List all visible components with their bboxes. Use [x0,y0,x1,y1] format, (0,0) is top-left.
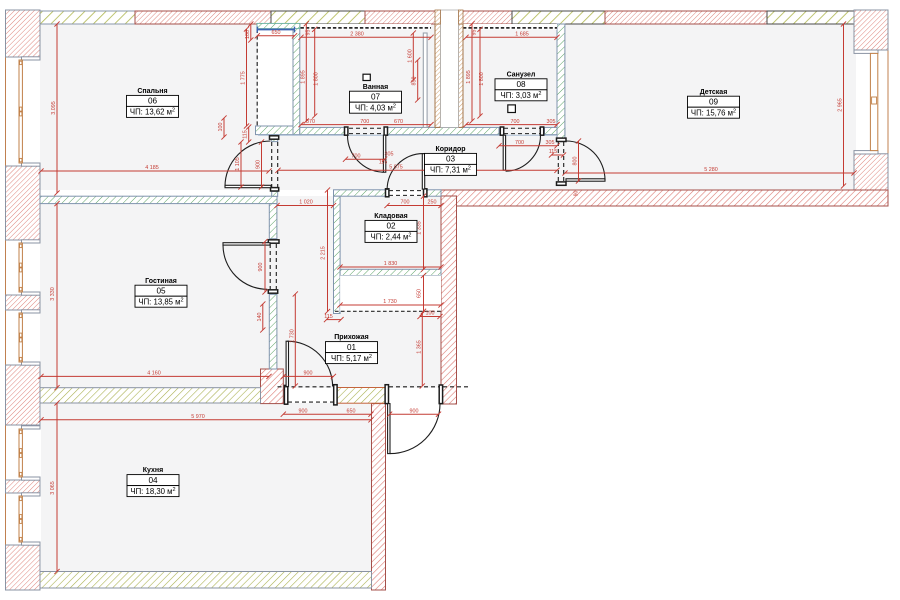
door bathroom: opening dash [349,127,383,129]
dimension nursery width 5280 [562,167,856,175]
svg-text:ЧП: 2,44 м2: ЧП: 2,44 м2 [371,233,412,242]
dimension hallway arm height 2215 [321,187,331,314]
room label Гостиная 05 [135,278,187,307]
svg-text:1 020: 1 020 [299,200,313,206]
room label Санузел 08 [495,71,547,100]
svg-text:1 775: 1 775 [241,71,247,85]
dimension shaft 850 [412,57,421,102]
svg-text:1 895: 1 895 [466,70,472,84]
svg-text:07: 07 [371,92,381,101]
svg-text:650: 650 [272,30,281,36]
window on left exterior wall kitchen window 2 [19,493,40,545]
closet niche dashed south boundary [335,310,441,312]
window on left exterior wall living room window 1 [19,240,40,295]
svg-text:1 105: 1 105 [235,157,241,171]
door corridor to hallway: jambs [386,189,427,197]
svg-text:1 800: 1 800 [479,72,485,86]
balcony lobby south partition [256,126,300,135]
svg-text:Ванная: Ванная [363,84,388,91]
exterior top wall band, red hatched segment over nursery [605,11,767,24]
closet niche white floor [340,276,441,311]
dimension bathroom height 1895 [300,21,309,124]
svg-text:900: 900 [410,408,419,414]
dimension entry door 900 [387,408,441,416]
window on left exterior wall kitchen window 1 [19,426,40,480]
right exterior wall outer face line [887,10,889,206]
dimension bathroom width 2380 [298,32,433,40]
svg-text:02: 02 [386,222,396,231]
exterior top wall band, red hatched segment [135,11,271,24]
svg-text:Санузел: Санузел [507,71,536,78]
ventilation shaft duct opening in top wall [435,10,463,127]
svg-text:650: 650 [417,289,423,298]
svg-text:700: 700 [352,153,361,159]
svg-text:140: 140 [257,313,263,322]
door nursery: leaf and swing arc [566,141,605,181]
svg-text:1 365: 1 365 [416,340,422,354]
dimension hallway top width 1020 [274,200,336,208]
dimension kitchen north 900 650 [281,408,374,416]
svg-text:ЧП: 18,30 м2: ЧП: 18,30 м2 [130,487,175,496]
entry door: jambs [385,385,443,404]
dimension storage width 1830 [337,261,443,269]
partition between WC and nursery [557,24,565,141]
svg-text:3.095: 3.095 [51,101,57,115]
svg-text:ЧП: 13,62 м2: ЧП: 13,62 м2 [130,108,175,117]
door WC: jambs [500,127,543,135]
left exterior wall small pier living room [6,295,41,310]
svg-text:1 685: 1 685 [515,32,529,38]
door bathroom: jambs [345,127,388,135]
door hallway to kitchen: jambs [284,385,337,405]
corridor south partition right of storage door [424,190,441,196]
svg-text:670: 670 [394,119,403,125]
partition between bedroom and living room [40,196,277,203]
svg-text:1 800: 1 800 [314,72,320,86]
svg-text:06: 06 [148,97,158,106]
left exterior wall pier bottom corner [6,545,41,590]
door bedroom: opening dashes [272,142,278,187]
balcony lobby interior white floor [258,29,293,127]
dimension bathroom height 1800 [312,27,319,119]
svg-text:Коридор: Коридор [435,146,465,153]
door WC: opening dashes [504,128,540,133]
dimension WC south 700 305 [463,119,559,127]
svg-text:305: 305 [547,119,556,125]
kitchen south exterior wall olive hatched [40,572,372,589]
svg-text:850: 850 [412,77,418,86]
svg-text:95: 95 [306,30,312,36]
dimension niche wall 115 [324,314,344,322]
dimension balcony door 650 [255,30,297,38]
svg-text:800: 800 [573,157,579,166]
window on left exterior wall bedroom [19,57,40,166]
WC north thin wall with dashed line [463,24,557,30]
dimension bathroom south 870 700 670 [298,119,433,127]
door living room: leaf and swing arc [223,243,270,290]
exterior top wall band, red hatched segment over WC [462,11,512,24]
svg-text:ЧП: 15,76 м2: ЧП: 15,76 м2 [691,109,736,118]
svg-text:870: 870 [306,119,315,125]
svg-text:305: 305 [385,152,394,158]
dimension niche width 1730 [337,299,443,307]
door hallway to kitchen: opening dashes [278,387,334,402]
dimension corridor length 5075 [275,165,559,173]
storage west partition [334,196,341,313]
svg-text:09: 09 [709,97,719,106]
ventilation shaft west wall [435,24,441,127]
right exterior wall pier below nursery window [854,154,888,206]
svg-text:Кухня: Кухня [143,467,163,474]
room label Кладовая 02 [365,213,417,242]
load-bearing wall right of storage and hallway [441,196,457,404]
dimension kitchen width 5970 [38,414,373,422]
dimension hallway height 1365 [416,311,425,389]
svg-text:700: 700 [515,140,524,146]
window on right exterior wall of nursery [854,50,878,154]
bathroom north thin wall with dashed line [301,24,432,30]
dimension bathroom door 700 corridor side [343,153,387,161]
door WC: leaf and swing arc [503,135,540,171]
kitchen north wall olive hatched segment [40,388,261,403]
dimension 100 [218,115,227,139]
door bedroom: jambs [270,136,279,191]
left exterior wall pier top [6,10,41,57]
dimension bedroom door 1105 [235,139,244,189]
svg-text:3 330: 3 330 [50,287,56,301]
svg-text:700: 700 [401,200,410,206]
room label Спальня 06 [127,88,179,117]
dimension shaft 1600 [407,30,416,82]
door bedroom: leaf and swing arc [225,141,271,188]
balcony lobby dashed west boundary [256,29,258,128]
svg-text:ЧП: 5,17 м2: ЧП: 5,17 м2 [331,354,372,363]
dimension living room door 900 [258,239,268,295]
door nursery: opening dashes [558,142,563,181]
left exterior wall outer face line [5,10,7,590]
svg-text:650: 650 [347,408,356,414]
svg-text:Детская: Детская [700,89,728,96]
dimension hallway door 900 [281,371,336,379]
corridor north partition between bathroom and WC doors [385,127,499,134]
dimension hallway height 1730 [289,291,298,388]
dimension bedroom door 900 [256,139,265,189]
svg-text:1 730: 1 730 [383,299,397,305]
svg-text:Кладовая: Кладовая [374,213,408,220]
bedroom east wall stub above door [272,135,278,142]
dimension nursery height 2965 [838,21,847,188]
svg-text:100: 100 [426,311,435,317]
svg-text:1 730: 1 730 [289,329,295,343]
door hallway to kitchen: leaf and swing arc [286,341,333,386]
svg-text:5 280: 5 280 [704,167,718,173]
exterior top wall band, red hatched segment over bathroom [365,11,437,24]
svg-text:115: 115 [379,160,388,166]
dimension storage height 1335 [417,194,427,272]
room label Ванная 07 [350,84,402,113]
door nursery: jambs [557,138,567,185]
svg-text:Спальня: Спальня [137,88,167,95]
room label Кухня 04 [127,467,179,496]
svg-text:100: 100 [218,123,224,132]
door corridor to hallway: leaf and swing arc [387,154,425,190]
dimension niche height 650 [417,273,427,314]
top right corner pier of nursery [854,10,888,50]
corridor south partition / storage north wall [334,190,388,196]
svg-text:1 895: 1 895 [300,70,306,84]
svg-text:5 970: 5 970 [191,414,205,420]
thick load-bearing wall under corridor and nursery [441,190,888,206]
exterior top wall band, olive hatched segment over bath lobby [271,11,365,24]
svg-text:01: 01 [347,343,357,352]
svg-text:100: 100 [245,30,251,39]
dimension lobby height 1775 [241,26,250,128]
kitchen north wall olive hatched segment right of passage [337,388,386,404]
partition living room east wall upper part [269,204,277,239]
vent symbol in WC [508,105,516,113]
room label Детская 09 [688,89,740,118]
svg-text:ЧП: 7,31 м2: ЧП: 7,31 м2 [430,166,471,175]
dimension living room height 3330 [50,201,60,390]
svg-text:900: 900 [304,371,313,377]
svg-text:900: 900 [258,263,264,272]
svg-text:115: 115 [324,314,333,320]
room label Коридор 03 [425,146,477,175]
dimension bedroom door 115 [243,124,252,144]
exterior top wall band, olive hatched segment over bedroom [38,11,135,24]
door bathroom: leaf and swing arc [347,135,385,172]
dimension bedroom height 3095 [51,21,60,195]
svg-text:ЧП: 13,85 м2: ЧП: 13,85 м2 [138,298,183,307]
bedroom east wall stub below door [272,191,278,196]
door living room: opening dashes [270,244,276,289]
svg-text:700: 700 [511,119,520,125]
dimension nursery door 800 [573,138,582,183]
dimension living room width 4160 [38,371,271,379]
dimension kitchen height 3065 [50,400,60,574]
door living room: jambs [268,240,279,293]
svg-text:2 965: 2 965 [838,98,844,112]
svg-text:90: 90 [574,191,580,197]
entry door: opening dashes [389,386,470,388]
exterior top wall band, olive hatched segment over nursery [767,11,856,24]
svg-text:115: 115 [549,149,558,155]
svg-text:Гостиная: Гостиная [145,278,177,285]
svg-text:900: 900 [256,160,262,169]
dimension lobby 100 [245,21,254,42]
svg-text:1 830: 1 830 [384,261,398,267]
light blue line under corridor north partition [258,134,556,136]
corridor north partition right of WC door [545,127,565,134]
svg-text:04: 04 [148,476,158,485]
exterior top wall band, olive hatched segment over WC [512,11,605,24]
load-bearing pier at living room south-east corner [261,369,284,404]
partition living room east wall lower part [269,294,277,369]
svg-text:03: 03 [446,155,456,164]
entry door: leaf and swing arc [388,404,440,454]
left exterior wall pier between living room and kitchen windows [6,365,41,425]
left exterior wall pier between bedroom and living room windows [6,166,41,240]
dimension 100 niche [417,311,442,319]
svg-text:2 380: 2 380 [350,32,364,38]
vent symbol in bathroom [363,74,370,80]
dimension storage door 700 250 [384,200,443,208]
left exterior wall small pier kitchen [6,480,41,493]
dimension 140 living room door [257,301,266,332]
corridor north partition under bathroom [300,127,346,134]
dimension WC height 1895 [466,21,475,124]
storage south partition [340,269,441,275]
svg-text:3 065: 3 065 [50,481,56,495]
partition between lobby and bathroom [293,24,300,135]
svg-text:05: 05 [156,286,166,295]
dimension 115 [549,149,566,157]
dimension WC width 1685 [463,32,559,40]
svg-text:ЧП: 4,03 м2: ЧП: 4,03 м2 [355,104,396,113]
svg-text:700: 700 [360,119,369,125]
dimension WC height 1800 [477,27,484,119]
svg-text:4 160: 4 160 [147,371,161,377]
svg-text:ЧП: 3,03 м2: ЧП: 3,03 м2 [501,91,542,100]
ventilation shaft east wall [459,24,464,127]
svg-text:115: 115 [243,130,249,139]
room label Прихожая 01 [326,334,378,363]
dimension WC door 700 305 [496,140,559,148]
svg-text:5 075: 5 075 [389,165,403,171]
window on left exterior wall living room window 2 [19,310,40,365]
balcony door in top wall of lobby [257,23,300,32]
dimension bedroom width 4185 [38,165,271,173]
bathroom east thin wall [423,33,427,127]
svg-text:305: 305 [546,140,555,146]
svg-text:95: 95 [472,30,478,36]
svg-text:4 185: 4 185 [145,165,159,171]
svg-text:1 600: 1 600 [407,49,413,63]
svg-text:08: 08 [516,80,526,89]
svg-text:2 215: 2 215 [321,246,327,260]
svg-text:900: 900 [299,408,308,414]
svg-text:Прихожая: Прихожая [334,334,369,341]
kitchen east load-bearing wall [372,404,386,590]
door corridor to hallway: opening dashes [389,191,424,196]
svg-text:250: 250 [428,200,437,206]
